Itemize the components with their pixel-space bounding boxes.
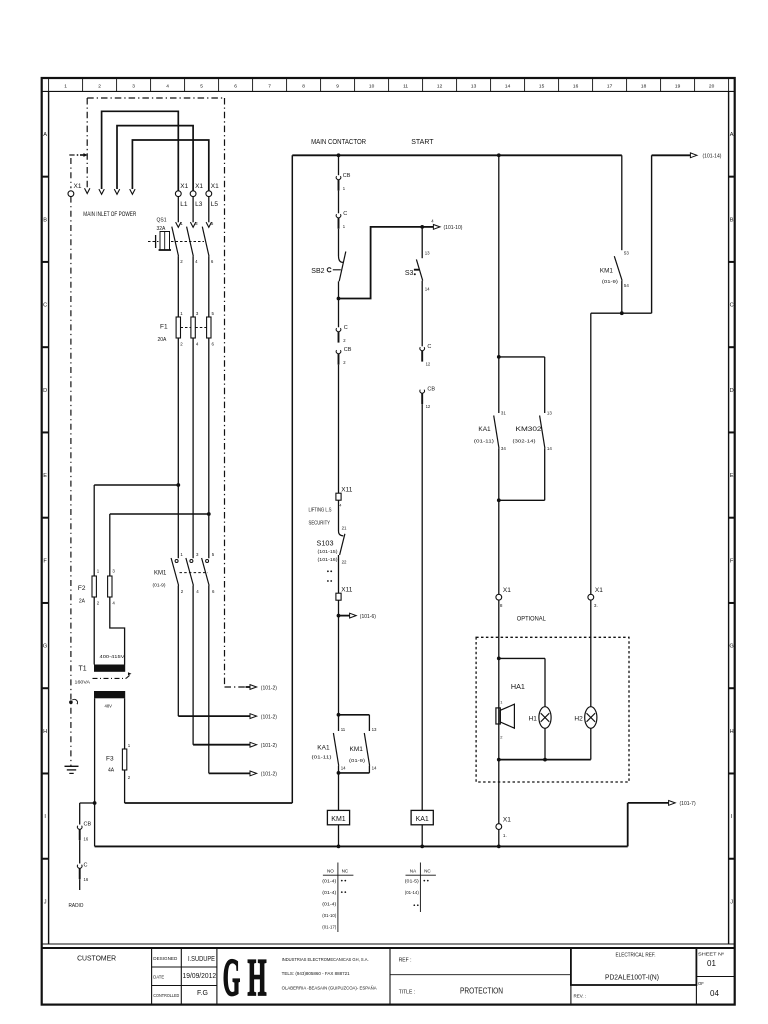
svg-text:NC: NC xyxy=(342,869,349,874)
svg-text:L3: L3 xyxy=(195,201,203,208)
svg-text:12: 12 xyxy=(437,84,443,90)
svg-text:F: F xyxy=(43,558,47,564)
svg-text:A: A xyxy=(43,132,47,138)
svg-text:21: 21 xyxy=(342,526,347,531)
svg-text:H: H xyxy=(730,729,734,735)
svg-text:OF: OF xyxy=(698,981,704,986)
svg-text:DESIGNED: DESIGNED xyxy=(153,956,177,961)
svg-text:REF :: REF : xyxy=(399,958,412,964)
svg-text:X11: X11 xyxy=(341,587,352,594)
svg-text:CB: CB xyxy=(344,347,352,353)
svg-text:I.SUDUPE: I.SUDUPE xyxy=(188,956,215,963)
svg-text:14: 14 xyxy=(425,286,430,291)
svg-text:48V: 48V xyxy=(105,704,113,709)
svg-text:X1: X1 xyxy=(211,183,219,190)
svg-text:T1: T1 xyxy=(79,666,87,673)
svg-text:(01-4): (01-4) xyxy=(322,902,337,907)
svg-text:7: 7 xyxy=(268,84,271,90)
svg-text:KM1: KM1 xyxy=(331,816,346,823)
svg-text:B: B xyxy=(43,217,47,223)
svg-text:DATE: DATE xyxy=(153,975,164,980)
svg-text:KM1: KM1 xyxy=(154,571,167,577)
svg-text:F2: F2 xyxy=(78,585,86,592)
svg-text:13: 13 xyxy=(471,84,477,90)
svg-text:11: 11 xyxy=(341,727,346,732)
svg-text:14: 14 xyxy=(547,446,552,451)
svg-text:(101-2): (101-2) xyxy=(261,685,277,691)
svg-text:(101-14): (101-14) xyxy=(703,154,722,160)
svg-text:D: D xyxy=(730,388,734,394)
svg-text:13: 13 xyxy=(372,727,377,732)
svg-text:X1: X1 xyxy=(503,817,511,824)
svg-text:SECURITY: SECURITY xyxy=(309,521,331,527)
svg-text:4: 4 xyxy=(166,84,169,90)
svg-text:3.: 3. xyxy=(594,603,598,608)
svg-text:NO: NO xyxy=(327,869,334,874)
svg-text:16: 16 xyxy=(573,84,579,90)
svg-text:CONTROLLED: CONTROLLED xyxy=(153,993,179,998)
svg-text:(01-14): (01-14) xyxy=(405,890,419,895)
svg-text:NA: NA xyxy=(410,869,417,874)
svg-text:ELECTRICAL REF.: ELECTRICAL REF. xyxy=(616,953,656,959)
svg-text:18: 18 xyxy=(641,84,647,90)
svg-text:(01-17): (01-17) xyxy=(322,925,336,930)
svg-text:F1: F1 xyxy=(160,324,168,331)
svg-text:G: G xyxy=(43,644,47,650)
svg-text:(101-15): (101-15) xyxy=(318,549,339,554)
svg-text:14: 14 xyxy=(372,765,377,770)
svg-text:KA1: KA1 xyxy=(416,816,429,823)
svg-text:J: J xyxy=(44,899,47,905)
svg-text:X1: X1 xyxy=(595,587,603,594)
svg-text:13: 13 xyxy=(425,250,430,255)
svg-text:(101-2): (101-2) xyxy=(261,772,277,778)
svg-text:14: 14 xyxy=(341,765,346,770)
svg-text:1.: 1. xyxy=(503,833,507,838)
svg-text:54: 54 xyxy=(624,283,629,288)
svg-text:LIFTING L.S: LIFTING L.S xyxy=(309,508,332,514)
svg-text:2A: 2A xyxy=(79,599,86,605)
svg-text:13: 13 xyxy=(547,410,552,415)
svg-text:NC: NC xyxy=(424,869,431,874)
svg-text:1: 1 xyxy=(64,84,67,90)
svg-text:PD2ALE100T-I(N): PD2ALE100T-I(N) xyxy=(605,975,659,982)
svg-text:C: C xyxy=(43,303,47,309)
svg-text:(101-2): (101-2) xyxy=(261,743,277,749)
svg-text:START: START xyxy=(411,139,434,146)
svg-text:22: 22 xyxy=(342,560,347,565)
svg-text:(01-10): (01-10) xyxy=(322,913,336,918)
svg-text:10: 10 xyxy=(369,84,375,90)
svg-text:C: C xyxy=(84,863,88,869)
svg-text:6: 6 xyxy=(234,84,237,90)
svg-text:L1: L1 xyxy=(180,201,188,208)
svg-text:X1: X1 xyxy=(74,183,82,190)
svg-text:H1: H1 xyxy=(529,716,538,723)
svg-text:G: G xyxy=(223,949,241,1007)
svg-text:CB: CB xyxy=(84,822,92,828)
svg-text:S3: S3 xyxy=(405,270,414,277)
svg-text:RADIO: RADIO xyxy=(69,903,84,909)
svg-text:19/09/2012: 19/09/2012 xyxy=(183,973,217,980)
svg-text:12: 12 xyxy=(426,361,431,366)
svg-text:TITLE :: TITLE : xyxy=(399,990,415,996)
svg-text:(01-4): (01-4) xyxy=(322,890,337,895)
svg-text:9: 9 xyxy=(336,84,339,90)
svg-text:KA1: KA1 xyxy=(478,426,491,433)
svg-text:(101-6): (101-6) xyxy=(360,614,376,620)
svg-text:01: 01 xyxy=(707,959,716,968)
svg-text:G: G xyxy=(729,644,733,650)
svg-text:L5: L5 xyxy=(211,201,219,208)
svg-text:KM1: KM1 xyxy=(350,746,364,753)
svg-text:C: C xyxy=(344,325,348,331)
svg-text:C: C xyxy=(427,344,431,350)
svg-text:A: A xyxy=(730,132,734,138)
svg-text:S103: S103 xyxy=(317,540,334,547)
svg-text:SHEET Nº: SHEET Nº xyxy=(698,952,725,957)
svg-text:KM302: KM302 xyxy=(516,426,542,433)
svg-text:5: 5 xyxy=(200,84,203,90)
svg-text:E: E xyxy=(43,473,47,479)
svg-text:J: J xyxy=(730,899,733,905)
svg-text:CB: CB xyxy=(343,173,351,179)
svg-text:17: 17 xyxy=(607,84,613,90)
svg-text:MAIN CONTACTOR: MAIN CONTACTOR xyxy=(311,139,366,146)
svg-text:QS1: QS1 xyxy=(157,218,167,224)
svg-text:E: E xyxy=(730,473,734,479)
svg-text:(01-9): (01-9) xyxy=(349,758,366,763)
svg-text:53: 53 xyxy=(624,251,629,256)
svg-text:3: 3 xyxy=(132,84,135,90)
svg-text:(01-9): (01-9) xyxy=(153,583,166,588)
svg-text:H2: H2 xyxy=(574,716,583,723)
svg-text:16: 16 xyxy=(84,837,89,842)
svg-text:C: C xyxy=(343,211,347,217)
svg-text:F.G: F.G xyxy=(197,990,208,997)
svg-text:X11: X11 xyxy=(341,487,352,494)
svg-text:X1: X1 xyxy=(503,587,511,594)
svg-text:11: 11 xyxy=(403,84,408,90)
svg-text:OLABERRIA -BEASAIN (GUIPUZCOA): OLABERRIA -BEASAIN (GUIPUZCOA)- ESPAÑA xyxy=(282,985,378,991)
svg-text:16: 16 xyxy=(84,877,89,882)
svg-text:H: H xyxy=(43,729,47,735)
svg-text:CB: CB xyxy=(427,387,435,393)
svg-text:4A: 4A xyxy=(108,768,115,774)
svg-text:CUSTOMER: CUSTOMER xyxy=(77,954,117,963)
svg-text:INDUSTRIAS ELECTROMECANICAS GH: INDUSTRIAS ELECTROMECANICAS GH, S.A. xyxy=(282,957,369,962)
svg-text:H: H xyxy=(248,949,267,1007)
svg-text:160VA: 160VA xyxy=(75,680,91,685)
svg-text:KM1: KM1 xyxy=(600,268,613,275)
svg-text:C: C xyxy=(730,303,734,309)
svg-text:2: 2 xyxy=(98,84,101,90)
svg-text:(101-16): (101-16) xyxy=(318,557,339,562)
svg-text:(101-7): (101-7) xyxy=(680,801,696,807)
svg-text:PROTECTION: PROTECTION xyxy=(460,986,503,995)
svg-text:REV. :: REV. : xyxy=(574,994,587,999)
svg-text:12: 12 xyxy=(426,404,431,409)
svg-text:(01-11): (01-11) xyxy=(474,439,495,444)
svg-text:(01-4): (01-4) xyxy=(322,879,337,884)
svg-text:F3: F3 xyxy=(106,756,114,763)
svg-text:19: 19 xyxy=(675,84,681,90)
svg-text:15: 15 xyxy=(539,84,545,90)
svg-text:14: 14 xyxy=(505,84,511,90)
svg-text:04: 04 xyxy=(710,989,719,998)
svg-text:B: B xyxy=(730,217,734,223)
svg-text:X1: X1 xyxy=(180,183,188,190)
svg-text:(01-5): (01-5) xyxy=(405,879,420,884)
svg-text:HA1: HA1 xyxy=(511,684,525,691)
svg-text:TELS: (943)805860 - FAX 888721: TELS: (943)805860 - FAX 888721 xyxy=(282,971,350,976)
svg-text:400-415V: 400-415V xyxy=(100,654,125,659)
svg-text:(01-11): (01-11) xyxy=(312,755,333,760)
svg-text:MAIN INLET OF POWER: MAIN INLET OF POWER xyxy=(83,212,137,218)
svg-text:(101-10): (101-10) xyxy=(444,225,463,231)
svg-text:X1: X1 xyxy=(195,183,203,190)
svg-text:34: 34 xyxy=(501,446,506,451)
svg-text:20A: 20A xyxy=(158,337,168,343)
svg-text:KA1: KA1 xyxy=(317,745,330,752)
svg-text:(01-9): (01-9) xyxy=(602,279,619,284)
svg-text:D: D xyxy=(43,388,47,394)
svg-text:OPTIONAL: OPTIONAL xyxy=(517,616,546,623)
svg-text:(101-2): (101-2) xyxy=(261,714,277,720)
svg-text:20: 20 xyxy=(709,84,715,90)
svg-text:(302-14): (302-14) xyxy=(513,439,537,444)
svg-text:31: 31 xyxy=(501,410,506,415)
svg-text:F: F xyxy=(730,558,734,564)
svg-text:8: 8 xyxy=(302,84,305,90)
svg-text:SB2: SB2 xyxy=(311,268,324,275)
svg-text:8: 8 xyxy=(500,603,503,608)
